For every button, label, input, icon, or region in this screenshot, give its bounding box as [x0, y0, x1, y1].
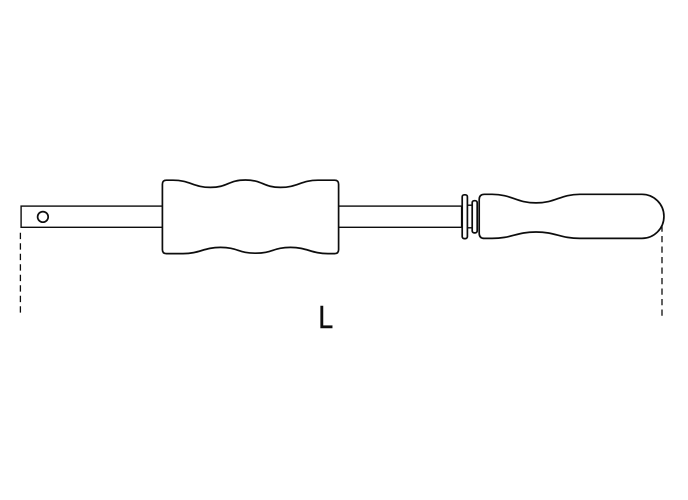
handle	[479, 194, 664, 238]
washer ring	[462, 195, 467, 239]
slide hammer weight grip	[162, 180, 338, 254]
collar	[472, 201, 477, 233]
svg-text:L: L	[318, 299, 333, 335]
hole in shaft end	[38, 212, 49, 223]
neck between washer and collar	[464, 205, 474, 228]
left extension dashed line	[19, 233, 21, 317]
right extension dashed line	[661, 226, 663, 316]
dimension label L	[318, 299, 333, 335]
shaft bar (left rod through hammer to washer)	[21, 206, 462, 227]
